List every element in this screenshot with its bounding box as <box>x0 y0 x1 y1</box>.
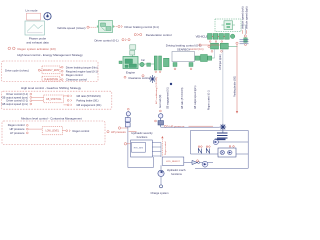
svg-text:Regen control: Regen control <box>8 123 25 127</box>
svg-text:Hydraulic severity: Hydraulic severity <box>131 131 153 135</box>
svg-text:GB_SHIFTING: GB_SHIFTING <box>46 99 62 101</box>
svg-text:Regen control (0-1): Regen control (0-1) <box>208 90 211 110</box>
svg-text:High level control - Energy Ma: High level control - Energy Management S… <box>17 53 83 57</box>
svg-text:Driver braking torque (Nm): Driver braking torque (Nm) <box>66 65 98 69</box>
svg-text:Deceleration control: Deceleration control <box>146 33 172 37</box>
svg-text:Vehicle speed (kph): Vehicle speed (kph) <box>244 6 248 29</box>
svg-text:GEARBOX: GEARBOX <box>177 48 190 52</box>
svg-text:GB output speed (rpm): GB output speed (rpm) <box>194 85 197 109</box>
svg-text:Medium level control - Contami: Medium level control - Contamina Managem… <box>21 116 82 120</box>
svg-text:Charge system: Charge system <box>150 191 169 195</box>
svg-text:Lin mode: Lin mode <box>26 9 38 13</box>
svg-text:Regen control: Regen control <box>73 129 90 133</box>
svg-text:GB engagement (0/1): GB engagement (0/1) <box>76 103 101 107</box>
svg-text:Driver control (0-1): Driver control (0-1) <box>94 38 118 42</box>
svg-text:Regen system activation (1/0): Regen system activation (1/0) <box>18 47 56 51</box>
svg-text:GB ratio (5/7/3/2/3/4): GB ratio (5/7/3/2/3/4) <box>181 87 184 109</box>
svg-text:GB ratio (5/7/3/2/3/4): GB ratio (5/7/3/2/3/4) <box>76 94 100 98</box>
svg-text:functions: functions <box>137 135 148 139</box>
svg-text:Clearance control: Clearance control <box>128 76 150 80</box>
svg-text:Engine: Engine <box>126 71 135 75</box>
svg-text:A/C conditioning (0-30-100): A/C conditioning (0-30-100) <box>155 77 158 104</box>
svg-text:and exhaust data: and exhaust data <box>26 40 49 44</box>
svg-text:HP pressure: HP pressure <box>111 130 126 134</box>
svg-text:LOW_LEVEL: LOW_LEVEL <box>45 131 59 133</box>
svg-text:Parking brake (0/1): Parking brake (0/1) <box>76 99 98 103</box>
svg-text:Driver braking control (0-1): Driver braking control (0-1) <box>125 25 159 29</box>
svg-text:Drive cycle (m/sec): Drive cycle (m/sec) <box>5 68 29 72</box>
svg-text:Hydraulic mach.: Hydraulic mach. <box>167 168 187 172</box>
svg-text:GB engagement (0/1): GB engagement (0/1) <box>166 87 169 109</box>
svg-text:Required engine load (0-1): Required engine load (0-1) <box>66 69 98 73</box>
svg-text:Regen control: Regen control <box>164 141 167 155</box>
svg-text:LP pressure: LP pressure <box>10 131 25 135</box>
svg-text:HP pressure: HP pressure <box>10 127 25 131</box>
svg-text:Clearance control: Clearance control <box>66 78 87 82</box>
svg-text:Regen control: Regen control <box>66 73 83 77</box>
svg-text:ENERGY_EMS: ENERGY_EMS <box>43 70 59 72</box>
svg-text:Car: Car <box>141 59 145 62</box>
svg-text:Aux load (W): Aux load (W) <box>159 94 162 108</box>
svg-text:functions: functions <box>171 172 182 176</box>
svg-text:GB output speed (rpm): GB output speed (rpm) <box>2 102 29 106</box>
svg-text:CLEARANCE: CLEARANCE <box>44 78 59 81</box>
svg-text:Vehicle speed (m/sec): Vehicle speed (m/sec) <box>57 26 85 30</box>
svg-text:control (0-1): control (0-1) <box>190 48 204 51</box>
svg-text:HP pressure: HP pressure <box>170 124 185 128</box>
svg-text:HYD_REMOT: HYD_REMOT <box>166 161 180 163</box>
svg-text:High level control - Gearbox S: High level control - Gearbox Shifting St… <box>21 86 82 90</box>
svg-text:Vehicle speed (m/s): Vehicle speed (m/s) <box>240 6 244 29</box>
svg-text:HYD_SEV: HYD_SEV <box>134 147 144 149</box>
svg-text:GB input (rpm): GB input (rpm) <box>219 54 222 70</box>
svg-text:VEHICLE: VEHICLE <box>196 35 208 39</box>
svg-text:Driving braking control (0-1): Driving braking control (0-1) <box>166 43 202 47</box>
svg-text:Parking brake (0/1): Parking brake (0/1) <box>234 76 237 97</box>
